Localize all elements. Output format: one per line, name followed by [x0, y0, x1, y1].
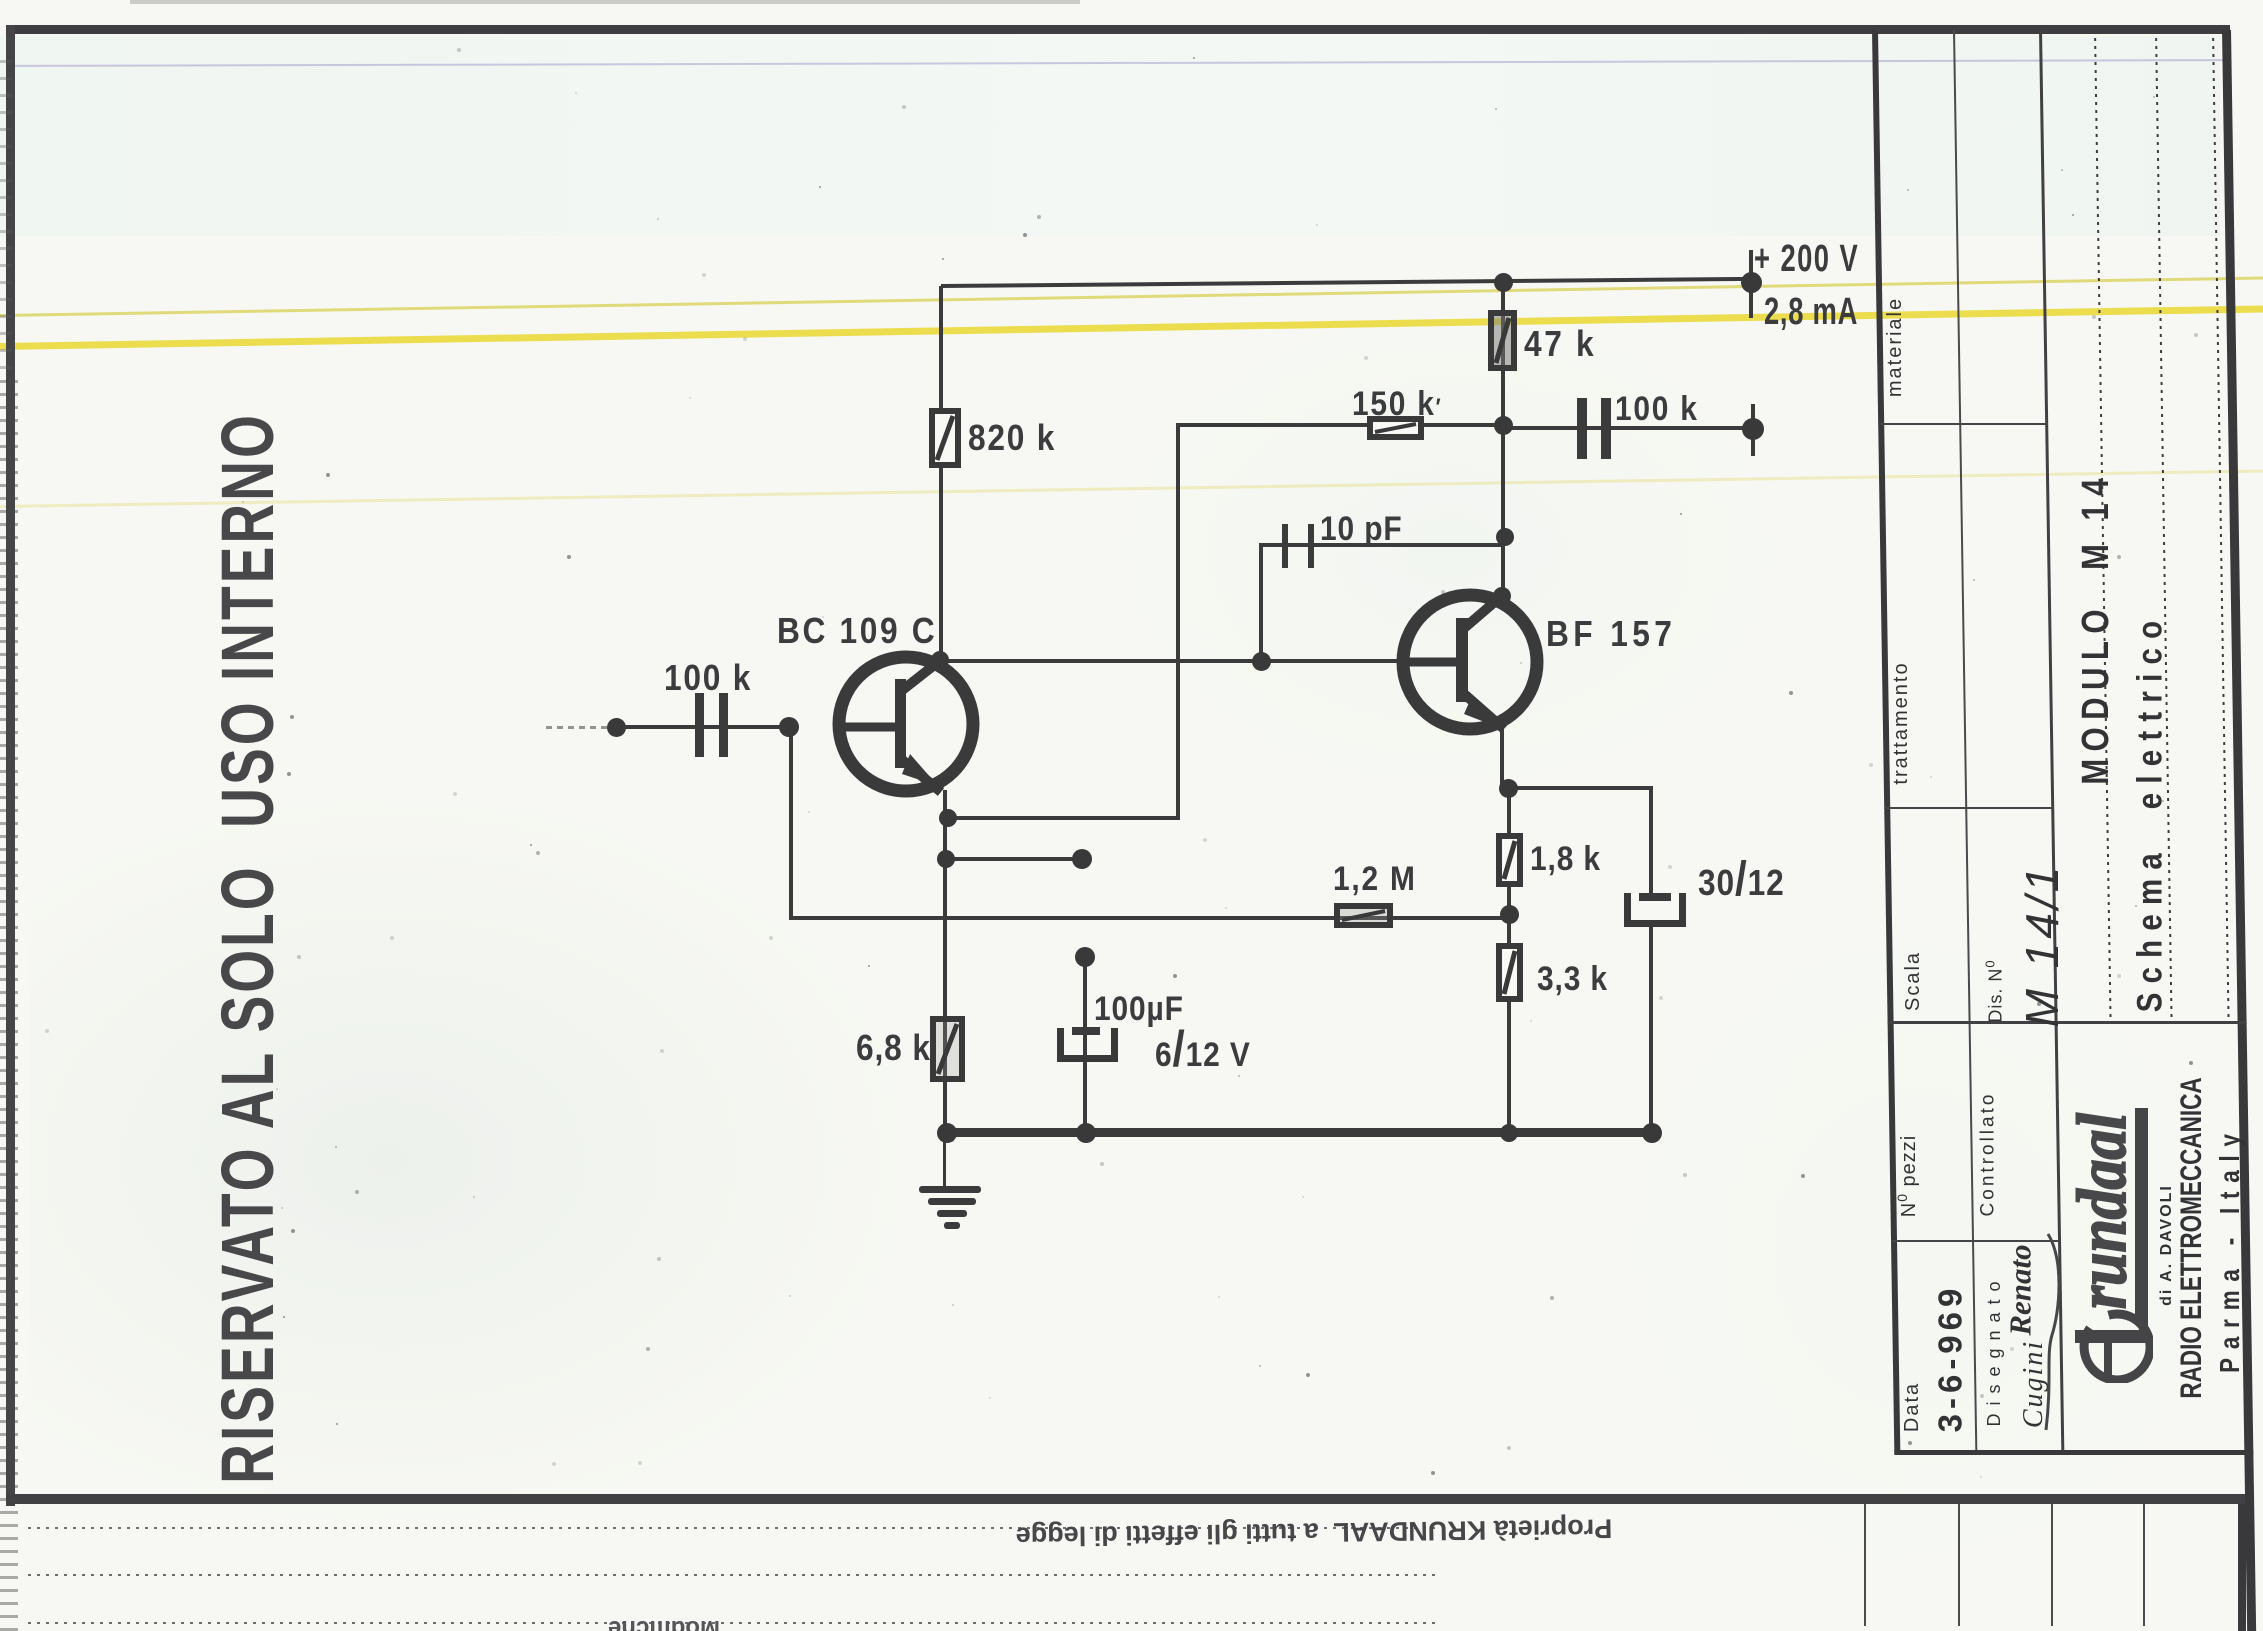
- svg-text:rundaal: rundaal: [2069, 1113, 2141, 1309]
